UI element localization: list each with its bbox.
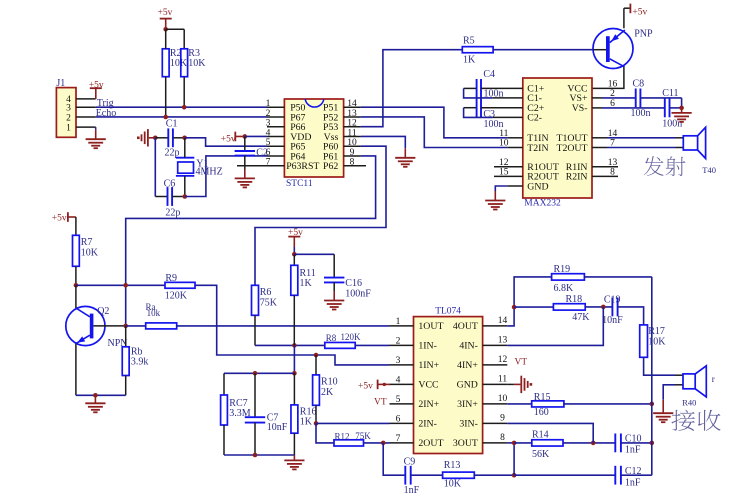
- svg-text:1IN-: 1IN-: [418, 341, 437, 352]
- wire R19 to bus: [584, 276, 651, 278]
- label R17 value 10K: [648, 326, 666, 347]
- ground at R40: [653, 400, 673, 422]
- svg-text:22p: 22p: [165, 207, 180, 218]
- resistor R15: [507, 401, 564, 407]
- resistor R19: [552, 274, 585, 280]
- wire R17 to speaker R40: [644, 357, 675, 375]
- junction dot R10 top: [314, 353, 319, 358]
- junction dot R7/R9: [74, 283, 79, 288]
- svg-text:6.8K: 6.8K: [554, 283, 575, 294]
- speaker T40 transmit: [676, 127, 706, 158]
- svg-text:8: 8: [500, 433, 505, 443]
- wire Q2 emitter rail: [76, 394, 126, 396]
- junction dot R3/Trig: [182, 105, 187, 110]
- svg-text:R40: R40: [682, 397, 696, 407]
- wire Trig net J1.3 to STC11 P50: [96, 106, 267, 108]
- svg-text:+5v: +5v: [52, 213, 67, 223]
- TL074 right stubs: [483, 326, 508, 443]
- resistor RC7: [221, 373, 228, 455]
- ground at R16 column: [284, 455, 304, 469]
- label R16 value 1K: [300, 406, 317, 427]
- svg-text:10: 10: [347, 138, 357, 148]
- label C9 value 1nF: [404, 456, 420, 496]
- svg-text:R7: R7: [81, 237, 93, 248]
- svg-text:C6: C6: [164, 178, 176, 189]
- capacitor C8: [602, 89, 682, 108]
- svg-text:PNP: PNP: [634, 29, 653, 40]
- transistor Q1 PNP: [593, 29, 633, 69]
- label Y1 value 4MHZ: [196, 158, 223, 177]
- label Trig: [97, 98, 114, 109]
- label R40: [682, 397, 696, 407]
- svg-text:7: 7: [266, 158, 271, 168]
- ground at Q2: [85, 395, 105, 412]
- svg-text:100n: 100n: [484, 88, 504, 99]
- wire Q2 collector up: [75, 285, 77, 308]
- resistor R18: [514, 304, 585, 310]
- STC11 right pin stubs: [344, 107, 366, 166]
- junction dot emitter rail/ground: [93, 393, 98, 398]
- svg-text:T2OUT: T2OUT: [556, 143, 587, 154]
- svg-text:+5v: +5v: [358, 381, 373, 391]
- svg-text:2IN+: 2IN+: [418, 399, 439, 410]
- svg-text:9: 9: [350, 148, 355, 158]
- svg-text:75K: 75K: [355, 431, 371, 441]
- wire P60 pin10 to R6: [255, 146, 386, 285]
- label C16 value 100nF: [345, 278, 371, 299]
- svg-text:11: 11: [498, 374, 507, 384]
- svg-text:C4: C4: [483, 69, 495, 80]
- label C2: [256, 147, 268, 158]
- wire pin7 node down to C9: [383, 443, 405, 475]
- svg-text:R5: R5: [463, 35, 475, 46]
- wire R11-R16 column: [293, 345, 295, 373]
- label C8 value 100n: [631, 79, 651, 120]
- junction dot column/top rail: [292, 371, 297, 376]
- svg-text:11: 11: [347, 128, 356, 138]
- svg-text:56K: 56K: [532, 449, 550, 460]
- J1 pin numbers: [66, 95, 71, 133]
- wire RC7-C7 top rail: [224, 372, 294, 374]
- svg-text:3IN+: 3IN+: [457, 399, 478, 410]
- svg-text:1nF: 1nF: [625, 477, 641, 488]
- wire R40 bottom to ground: [663, 385, 675, 400]
- svg-text:4IN-: 4IN-: [459, 341, 478, 352]
- wire R11 node to C16: [294, 253, 334, 255]
- capacitor C9: [405, 466, 410, 485]
- capacitor C10: [615, 434, 621, 453]
- wire feedback bus vertical: [651, 277, 653, 475]
- label R19 value 6.8K: [554, 264, 575, 294]
- wire C9 to R13: [411, 474, 443, 476]
- wire Q1 collector to MAX232 VCC: [592, 67, 624, 89]
- label R13 value 10K: [444, 460, 462, 489]
- label T40: [702, 165, 716, 175]
- wire Vss pin11 to ground: [361, 136, 405, 148]
- junction dot C1 right / Y1 top: [182, 136, 187, 141]
- wire P61 pin9 to Q2 base node: [126, 156, 376, 326]
- label C4 value 100n: [483, 69, 503, 99]
- svg-text:R18: R18: [566, 294, 583, 305]
- svg-text:3.9k: 3.9k: [131, 357, 149, 368]
- junction dot pin8/R14: [512, 441, 517, 446]
- label VT at pin5: [374, 398, 387, 408]
- wire Echo net J1.2 to STC11 P67: [96, 116, 267, 118]
- J1 pin stubs: [76, 99, 96, 127]
- svg-text:3: 3: [266, 119, 271, 129]
- resistor R10: [313, 355, 320, 423]
- MAX232 right stubs: [592, 98, 618, 176]
- wire C19 to R17: [618, 307, 644, 325]
- label MAX232: [524, 199, 561, 209]
- power +5v at J1 pin4: [89, 80, 104, 99]
- svg-text:R8: R8: [326, 333, 337, 343]
- resistor Ra: [126, 323, 177, 329]
- svg-text:14: 14: [347, 99, 357, 109]
- wire R6 bottom to R8: [255, 315, 325, 345]
- label R5 value 1K: [463, 35, 476, 65]
- svg-text:8: 8: [350, 158, 355, 168]
- power +5v at R7: [52, 212, 76, 223]
- junction dot C7 top: [253, 371, 258, 376]
- junction dot R11 top node: [292, 252, 297, 257]
- label C11 value 100n: [662, 88, 682, 130]
- resistor R17: [640, 325, 648, 357]
- ground at MAX232 GND: [485, 186, 507, 210]
- svg-text:1K: 1K: [463, 54, 476, 65]
- label PNP: [634, 29, 653, 40]
- svg-text:13: 13: [347, 109, 357, 119]
- svg-text:4IN+: 4IN+: [457, 360, 478, 371]
- svg-text:1nF: 1nF: [404, 485, 420, 496]
- svg-text:10K: 10K: [444, 478, 462, 489]
- junction dot C7 bottom: [253, 453, 258, 458]
- resistor R16: [291, 373, 298, 455]
- ground at C11: [672, 108, 692, 122]
- wire VS+ down to ground node: [681, 98, 683, 108]
- svg-text:R2IN: R2IN: [566, 172, 588, 183]
- ground at J1 pin1: [86, 127, 106, 148]
- wire P51 pin14 to MAX232 T1IN: [361, 107, 507, 138]
- svg-text:10k: 10k: [147, 308, 161, 318]
- ground at Vss: [395, 148, 415, 167]
- driver U2 MAX232: [523, 78, 592, 198]
- TL074 left stubs: [390, 326, 414, 443]
- resistor R11: [291, 254, 298, 345]
- svg-text:10K: 10K: [81, 248, 99, 259]
- TL074 pin names: [418, 321, 478, 449]
- wire ground rail left vertical: [154, 138, 156, 197]
- svg-text:75K: 75K: [260, 298, 278, 309]
- resistor R12: [334, 440, 364, 446]
- svg-text:GND: GND: [527, 181, 548, 192]
- earth ground at TL074 GND pin11: [507, 376, 532, 393]
- junction dot R12/pin7/C9 branch: [381, 441, 386, 446]
- capacitor C12: [615, 466, 621, 485]
- svg-text:10K: 10K: [188, 58, 206, 69]
- junction dot R18/C19/pin13: [601, 305, 606, 310]
- svg-text:r: r: [712, 374, 715, 384]
- wire R8 to TL074 1IN- pin2: [355, 344, 389, 346]
- svg-text:C11: C11: [662, 88, 678, 99]
- svg-text:3IN-: 3IN-: [459, 419, 478, 430]
- wire P52 pin13 to MAX232 T2IN: [361, 117, 507, 148]
- label Q2: [97, 306, 109, 317]
- capacitor C4: [464, 79, 523, 98]
- wire P53 pin12 to R5: [361, 50, 462, 127]
- svg-text:C8: C8: [633, 79, 645, 90]
- power +5v at TL074 VCC pin4: [358, 380, 390, 392]
- junction dot R6-R8 rail / R11-R16 column: [292, 343, 297, 348]
- label fashe transmit: [644, 156, 686, 176]
- resistor Rb: [122, 326, 129, 395]
- wire +5v to R3 top: [166, 29, 185, 49]
- svg-text:10: 10: [498, 394, 508, 404]
- svg-text:T40: T40: [702, 165, 716, 175]
- label R2 value 10K: [170, 48, 188, 69]
- svg-text:9: 9: [500, 413, 505, 423]
- svg-text:100nF: 100nF: [345, 289, 371, 300]
- wire crystal top rail to P65: [185, 138, 267, 146]
- svg-text:+5v: +5v: [632, 8, 647, 18]
- svg-text:Q2: Q2: [97, 306, 109, 317]
- wire R10 node down to R12: [316, 423, 334, 443]
- junction dot R18 node: [512, 305, 517, 310]
- svg-text:J1: J1: [56, 78, 65, 89]
- svg-text:C19: C19: [604, 295, 621, 306]
- ground at C16: [324, 291, 344, 310]
- svg-text:3OUT: 3OUT: [453, 438, 478, 449]
- svg-text:+5v: +5v: [158, 8, 173, 18]
- wire bottom rail RC7 C7 R16: [224, 454, 294, 456]
- label R15 value 160: [534, 392, 551, 418]
- label R18 value 47K: [566, 294, 591, 323]
- connector J1: [56, 78, 76, 137]
- label STC11: [286, 179, 313, 189]
- resistor R3: [181, 49, 188, 107]
- svg-text:P63RST: P63RST: [286, 161, 319, 172]
- power +5v at VDD: [221, 132, 245, 145]
- svg-text:1OUT: 1OUT: [418, 321, 443, 332]
- svg-text:VS-: VS-: [572, 103, 588, 114]
- resistor R9: [165, 282, 195, 288]
- power +5v at Q1 emitter: [624, 4, 648, 29]
- wire crystal bottom rail to P64: [185, 156, 267, 197]
- wire 4OUT pin14 to R18/R19 node: [507, 277, 551, 326]
- wire T1OUT to speaker: [607, 137, 676, 139]
- capacitor C2: [235, 136, 255, 169]
- svg-text:120K: 120K: [165, 290, 188, 301]
- svg-text:VT: VT: [515, 357, 528, 367]
- label Echo: [96, 108, 117, 119]
- svg-text:R11: R11: [300, 268, 316, 279]
- resistor R7: [73, 217, 80, 285]
- svg-text:2IN-: 2IN-: [418, 419, 437, 430]
- resistor R13: [443, 472, 475, 478]
- svg-text:10K: 10K: [648, 336, 666, 347]
- svg-text:GND: GND: [457, 380, 478, 391]
- label C19 value 10nF: [602, 295, 623, 326]
- svg-text:1: 1: [266, 99, 271, 109]
- power +5v at R11: [288, 228, 303, 247]
- wire C10 right to bus: [621, 442, 652, 444]
- label C6 value 22p: [164, 178, 181, 218]
- earth ground at C1: [137, 129, 155, 146]
- svg-text:1K: 1K: [300, 278, 313, 289]
- svg-text:TL074: TL074: [435, 307, 461, 317]
- capacitor C11: [602, 99, 682, 118]
- wire +5v to VDD pin: [245, 135, 267, 137]
- label R6 value 75K: [260, 287, 278, 309]
- resistor R6: [252, 285, 259, 315]
- svg-text:4MHZ: 4MHZ: [196, 167, 223, 178]
- resistor R14: [514, 440, 563, 446]
- STC11 left pin stubs: [237, 107, 284, 166]
- wire Q2 emitter down: [75, 344, 77, 396]
- label VT at pin12: [515, 357, 528, 367]
- junction dot P61 line/R9 rail: [123, 283, 128, 288]
- power +5v above R2 R3: [158, 8, 173, 30]
- label R9 value 120K: [165, 273, 188, 301]
- wire C3 to C2- pin: [464, 108, 523, 118]
- junction dot +5v R2/R3: [163, 27, 168, 32]
- wire R18 to C19: [585, 306, 612, 308]
- svg-text:13: 13: [498, 335, 508, 345]
- svg-text:C2: C2: [256, 147, 268, 158]
- label C10 value 1nF: [625, 433, 642, 455]
- wire R12 to 2OUT pin7: [364, 442, 390, 444]
- svg-text:C1: C1: [166, 118, 178, 129]
- svg-text:2: 2: [66, 113, 71, 123]
- label Rb value 3.9k: [131, 346, 149, 367]
- junction dot R13/C12 node: [512, 473, 517, 478]
- capacitor C16: [324, 254, 344, 291]
- junction dot VDD/C2: [243, 134, 248, 139]
- label R11 value 1K: [300, 268, 316, 289]
- svg-text:C9: C9: [404, 456, 416, 467]
- capacitor C7: [245, 373, 265, 455]
- svg-text:VT: VT: [374, 398, 387, 408]
- svg-text:STC11: STC11: [286, 179, 313, 189]
- svg-text:VCC: VCC: [418, 380, 438, 391]
- junction dot R15/bus: [650, 402, 655, 407]
- svg-text:T2IN: T2IN: [527, 143, 548, 154]
- svg-text:R9: R9: [165, 273, 177, 284]
- wire up to 3OUT pin8: [507, 443, 514, 475]
- MAX232 left stubs: [494, 138, 523, 186]
- capacitor C3: [464, 98, 523, 117]
- svg-text:+5v: +5v: [221, 134, 236, 144]
- resistor R2: [162, 29, 169, 117]
- svg-text:R14: R14: [532, 430, 549, 441]
- wire C12 rail: [514, 474, 615, 476]
- label C7 value 10nF: [267, 412, 288, 433]
- wire R9 to TL074 1IN+ pin3: [195, 285, 390, 365]
- junction dot R14/C10/pin9: [591, 441, 596, 446]
- label R7 value 10K: [81, 237, 99, 259]
- label C3 value 100n: [483, 109, 503, 130]
- svg-text:10nF: 10nF: [602, 315, 623, 326]
- label TL074: [435, 307, 461, 317]
- crystal Y1: [176, 138, 194, 197]
- label jieshou receive: [671, 410, 720, 431]
- wire T2OUT to speaker: [607, 147, 676, 149]
- wire R9 rail: [76, 284, 165, 286]
- svg-text:3: 3: [66, 104, 71, 114]
- svg-text:22p: 22p: [165, 147, 180, 158]
- STC11 pin numbers left 1-7: [266, 99, 271, 168]
- MAX232 pin names: [527, 84, 588, 193]
- label C12 value 1nF: [625, 466, 642, 488]
- wire +5v to R11 node: [293, 247, 295, 254]
- wire R14 to C10: [563, 442, 615, 444]
- svg-text:R13: R13: [444, 460, 461, 471]
- junction dot R10 bottom / pin6: [314, 421, 319, 426]
- label r: [712, 374, 715, 384]
- svg-text:12: 12: [498, 355, 508, 365]
- svg-text:10nF: 10nF: [267, 422, 288, 433]
- svg-text:2: 2: [266, 109, 271, 119]
- svg-text:14: 14: [498, 316, 508, 326]
- op-amp U3 TL074: [414, 317, 483, 454]
- transistor Q2 NPN: [66, 306, 126, 345]
- label R12 value 75K: [335, 431, 372, 442]
- label RC7 value 3.3M: [229, 398, 251, 419]
- svg-text:1K: 1K: [300, 417, 313, 428]
- svg-text:100n: 100n: [484, 119, 504, 130]
- junction dot R2/Echo: [163, 115, 168, 120]
- junction dot Y1 bottom / C6 right: [183, 194, 188, 199]
- label R3 value 10K: [188, 48, 206, 69]
- STC11 pin names: [286, 103, 338, 173]
- svg-text:C2-: C2-: [527, 113, 542, 124]
- svg-text:10K: 10K: [170, 58, 188, 69]
- svg-text:2OUT: 2OUT: [418, 438, 443, 449]
- wire R15 to bus: [564, 403, 652, 405]
- TL074 pin numbers: [396, 316, 508, 444]
- ground at C2: [235, 170, 255, 188]
- junction dot VS-/C11/ground: [679, 106, 684, 111]
- label C1 value 22p: [165, 118, 180, 158]
- svg-text:2K: 2K: [321, 387, 334, 398]
- svg-text:R6: R6: [260, 287, 272, 298]
- svg-text:P62: P62: [323, 161, 338, 172]
- svg-text:1nF: 1nF: [625, 445, 641, 456]
- svg-text:12: 12: [347, 119, 357, 129]
- svg-text:R12: R12: [335, 432, 350, 442]
- label R8 value 120K: [326, 332, 361, 343]
- wire Ra to TL074 1OUT pin1: [177, 325, 390, 327]
- microcontroller U1 STC11: [284, 99, 343, 177]
- wire C12 to bus corner: [621, 474, 652, 476]
- wire 4IN- pin13 up: [507, 307, 603, 346]
- svg-text:R15: R15: [534, 392, 551, 403]
- svg-text:R19: R19: [554, 264, 571, 275]
- resistor R8: [325, 342, 355, 348]
- svg-text:47K: 47K: [572, 312, 590, 323]
- svg-text:4OUT: 4OUT: [453, 321, 478, 332]
- svg-text:120K: 120K: [341, 332, 362, 342]
- capacitor C1: [155, 128, 184, 147]
- speaker R40 receive: [675, 366, 706, 397]
- junction dot C10/bus: [650, 441, 655, 446]
- wire 2IN- pin6: [316, 422, 390, 424]
- svg-text:16: 16: [608, 79, 618, 89]
- MAX232 pin numbers: [499, 79, 617, 177]
- wire R13 to pin8 node: [474, 474, 514, 476]
- svg-text:MAX232: MAX232: [524, 199, 561, 209]
- svg-text:11: 11: [499, 129, 508, 139]
